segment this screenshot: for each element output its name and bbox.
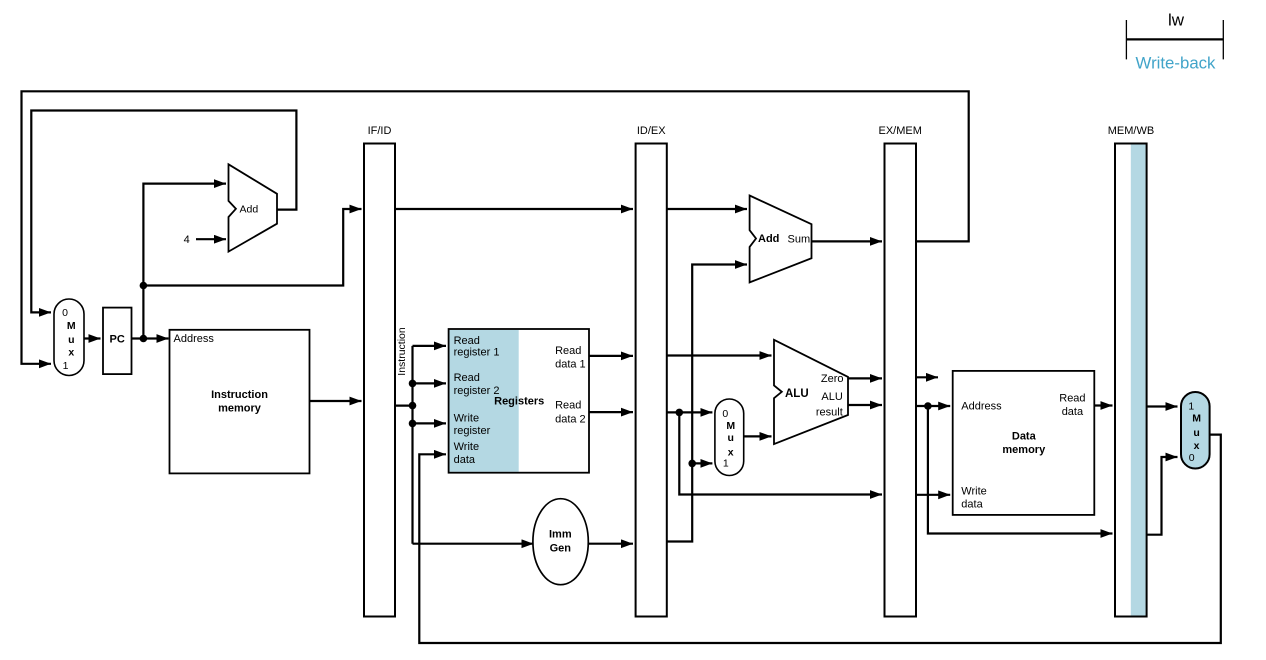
svg-text:ALU: ALU <box>785 388 809 400</box>
svg-text:Add: Add <box>240 203 259 215</box>
svg-text:M: M <box>67 320 76 332</box>
svg-text:PC: PC <box>110 334 125 346</box>
wire PC branch to IF/ID <box>143 209 361 286</box>
svg-text:data 2: data 2 <box>555 414 586 426</box>
svg-text:0: 0 <box>722 408 728 420</box>
svg-text:Gen: Gen <box>550 543 572 555</box>
svg-text:Read: Read <box>454 335 480 347</box>
junction dot immediate riser <box>688 460 696 468</box>
svg-text:Sum: Sum <box>788 234 811 246</box>
svg-text:EX/MEM: EX/MEM <box>878 125 921 137</box>
wire MEM/WB read data to right mux input 1 <box>1147 405 1178 407</box>
wire ID/EX immediate riser to Add bottom input <box>667 265 747 542</box>
wire IF/ID PC out to ID/EX <box>395 208 633 210</box>
wire bus to Read register 1 <box>413 345 447 347</box>
svg-text:Instruction: Instruction <box>211 389 268 401</box>
svg-text:1: 1 <box>1188 401 1194 413</box>
wire instruction bus vertical <box>411 346 413 544</box>
wire mid mux out to ALU bottom input <box>744 435 772 437</box>
mux M1 (PC source mux) <box>54 299 84 376</box>
svg-text:register: register <box>454 425 491 437</box>
junction dot PC out <box>140 335 148 343</box>
svg-text:Registers: Registers <box>494 396 544 408</box>
adder Add (branch target) <box>750 196 812 283</box>
svg-text:memory: memory <box>1002 444 1046 456</box>
svg-text:0: 0 <box>1189 452 1195 464</box>
wire bus to Imm Gen <box>413 543 534 545</box>
wire EX/MEM ALU result to data memory Address <box>916 405 950 407</box>
svg-text:M: M <box>726 420 735 432</box>
ALU U1 <box>774 340 848 444</box>
register file Registers <box>449 329 589 473</box>
svg-text:M: M <box>1192 413 1201 425</box>
wire PC out to instruction memory Address <box>132 337 169 339</box>
svg-text:Write: Write <box>454 413 479 425</box>
svg-text:x: x <box>68 346 74 358</box>
svg-text:Data: Data <box>1012 430 1037 442</box>
svg-text:Read: Read <box>1059 393 1085 405</box>
svg-text:ID/EX: ID/EX <box>637 125 666 137</box>
junction dot ALU result <box>924 402 932 410</box>
stage bracket lw / Write-back <box>1126 11 1223 73</box>
svg-text:Add: Add <box>758 233 779 245</box>
svg-text:Write: Write <box>961 486 986 498</box>
mux M3 (write-back mux, active) <box>1181 392 1210 469</box>
svg-text:ALU: ALU <box>821 391 842 403</box>
wire bus to Read register 2 <box>413 382 447 384</box>
wire Read data 2 to ID/EX <box>589 411 633 413</box>
instruction memory <box>170 330 310 474</box>
wire ALU Zero out to EX/MEM <box>848 377 882 379</box>
svg-text:data: data <box>961 499 983 511</box>
svg-text:data: data <box>1062 406 1084 418</box>
data memory <box>953 371 1095 515</box>
svg-text:register 2: register 2 <box>454 385 500 397</box>
svg-text:4: 4 <box>184 234 190 246</box>
svg-text:memory: memory <box>218 402 262 414</box>
adder Add (PC+4) <box>229 164 278 251</box>
wire PC riser to Add top input <box>143 184 226 339</box>
wire ID/EX to ALU top input <box>667 354 772 356</box>
pipeline register MEM/WB (active, shaded) <box>1108 125 1154 617</box>
wire data memory Read data to MEM/WB <box>1094 404 1112 406</box>
junction dot PC branch <box>140 282 148 290</box>
svg-text:Zero: Zero <box>821 373 844 385</box>
svg-text:u: u <box>727 432 733 444</box>
svg-text:u: u <box>1193 427 1199 439</box>
wire ALU result out to EX/MEM <box>848 404 882 406</box>
wire ID/EX PC out to Add top input <box>667 208 747 210</box>
wire ALU result bypass down to MEM/WB <box>928 406 1113 534</box>
wire Read data 1 to ID/EX <box>589 355 633 357</box>
svg-text:data 1: data 1 <box>555 359 586 371</box>
svg-text:Write-back: Write-back <box>1136 54 1216 73</box>
wire MEM/WB ALU result to right mux input 0 <box>1147 457 1178 535</box>
svg-text:1: 1 <box>63 360 69 372</box>
svg-text:lw: lw <box>1168 11 1185 30</box>
pipeline register EX/MEM <box>878 125 921 617</box>
svg-text:Imm: Imm <box>549 528 572 540</box>
svg-text:data: data <box>454 454 476 466</box>
wire inner PC+4 loop: Add out to left mux input 0 <box>31 111 296 313</box>
wire EX/MEM to data memory Write data <box>916 494 950 496</box>
svg-text:register 1: register 1 <box>454 347 500 359</box>
immediate generator Imm Gen <box>533 499 588 585</box>
wire ID/EX to mid mux input 0 <box>667 411 713 413</box>
junction dot read data 2 <box>676 409 684 417</box>
wire read data 2 down to EX/MEM write data path <box>679 412 882 494</box>
pipeline register IF/ID <box>364 125 395 617</box>
wire Imm Gen out to ID/EX <box>588 543 633 545</box>
svg-text:IF/ID: IF/ID <box>368 125 392 137</box>
svg-text:Write: Write <box>454 441 479 453</box>
wire constant 4 into Add <box>196 238 226 240</box>
wire EX/MEM Zero stub <box>916 376 938 378</box>
svg-text:x: x <box>1194 440 1200 452</box>
svg-text:result: result <box>816 407 843 419</box>
wire immediate branch to mid mux input 1 <box>692 462 712 464</box>
svg-text:Read: Read <box>555 345 581 357</box>
junction dot bus instruction in <box>409 402 417 410</box>
svg-text:Address: Address <box>961 401 1002 413</box>
wire IF/ID instruction out to bus <box>395 405 413 407</box>
wire instruction memory out to IF/ID <box>310 400 362 402</box>
wire left mux to PC <box>84 337 101 339</box>
wire Add Sum out to EX/MEM <box>812 240 883 242</box>
svg-text:MEM/WB: MEM/WB <box>1108 125 1154 137</box>
wire bus to Write register <box>413 422 447 424</box>
svg-text:Address: Address <box>174 333 215 345</box>
svg-text:1: 1 <box>723 458 729 470</box>
wire write-back loop: right mux out, bottom wire, up to Write data <box>419 435 1221 643</box>
wire outer branch loop: EX/MEM Sum out to left mux input 1 <box>22 91 969 364</box>
pipeline register ID/EX <box>636 125 667 617</box>
svg-text:Read: Read <box>555 400 581 412</box>
svg-text:u: u <box>68 334 74 346</box>
svg-text:0: 0 <box>62 307 68 319</box>
register PC <box>103 308 132 375</box>
svg-text:Read: Read <box>454 372 480 384</box>
junction dot bus write register <box>409 420 417 428</box>
junction dot bus read register 2 <box>409 380 417 388</box>
svg-text:Instruction: Instruction <box>396 327 408 376</box>
mux M2 (ALU operand mux) <box>715 399 744 476</box>
